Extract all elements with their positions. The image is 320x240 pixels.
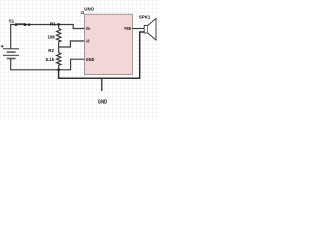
svg-text:10k: 10k bbox=[47, 35, 55, 40]
wire PWM to speaker bbox=[132, 28, 144, 30]
svg-text:GND: GND bbox=[98, 100, 108, 106]
wire ground net below IC to speaker return bbox=[59, 32, 145, 78]
svg-text:R1: R1 bbox=[50, 22, 56, 27]
ic U1 UNO bbox=[81, 7, 133, 75]
svg-text:SPK1: SPK1 bbox=[139, 14, 151, 19]
wire A0 tap bbox=[59, 41, 85, 47]
svg-text:R2: R2 bbox=[48, 48, 54, 53]
net label GND bbox=[98, 100, 108, 106]
node junction R2 bottom bbox=[57, 68, 60, 71]
svg-text:Vin: Vin bbox=[86, 26, 91, 31]
svg-text:S1: S1 bbox=[9, 18, 15, 23]
svg-text:UNO: UNO bbox=[84, 7, 94, 12]
svg-text:A0: A0 bbox=[86, 38, 90, 43]
wire battery negative to bottom net and GND pin bbox=[11, 59, 85, 70]
svg-text:U1: U1 bbox=[81, 10, 85, 15]
battery B1 bbox=[1, 45, 19, 59]
switch S1 bbox=[9, 18, 31, 26]
wire GND net stub bbox=[101, 78, 103, 91]
resistor R1 bbox=[47, 22, 60, 47]
resistor R2 bbox=[46, 47, 61, 70]
wire top net from battery + through switch to Vin step bbox=[11, 25, 85, 49]
svg-text:5.1k: 5.1k bbox=[46, 57, 55, 62]
node junction R1 top bbox=[57, 23, 60, 26]
svg-text:GND: GND bbox=[86, 57, 95, 62]
speaker SPK1 bbox=[139, 14, 156, 40]
svg-text:PWM: PWM bbox=[125, 26, 132, 31]
